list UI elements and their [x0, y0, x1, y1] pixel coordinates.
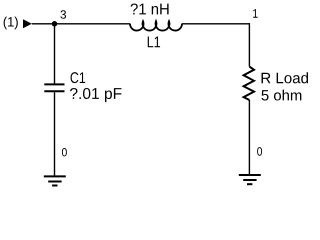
- node 3 label: [60, 10, 66, 18]
- ground (left): [44, 176, 66, 185]
- ground (right): [239, 175, 261, 184]
- node 0 label (left): [62, 148, 67, 156]
- value ?.01 pF: [70, 88, 121, 102]
- wire from resistor down to ground: [248, 100, 250, 174]
- node 3 junction dot: [52, 21, 58, 27]
- value 5 ohm: [262, 90, 302, 101]
- wire from inductor to corner: [182, 23, 250, 25]
- port (1) label: [4, 17, 18, 30]
- inductor L1: [130, 21, 182, 30]
- wire from port to inductor: [32, 23, 130, 25]
- wire from corner down to resistor: [248, 23, 250, 67]
- wire from node 3 down to C1: [54, 24, 56, 84]
- node 1 label: [253, 9, 258, 18]
- node 0 label (right): [257, 147, 262, 156]
- capacitor C1: [44, 84, 64, 91]
- label C1: [71, 72, 86, 83]
- label R Load: [262, 72, 308, 83]
- resistor R Load: [244, 67, 254, 100]
- label L1: [148, 37, 160, 48]
- port P1 arrow: [23, 19, 32, 28]
- value ?1 nH: [131, 3, 169, 14]
- wire from C1 down to ground: [54, 92, 56, 175]
